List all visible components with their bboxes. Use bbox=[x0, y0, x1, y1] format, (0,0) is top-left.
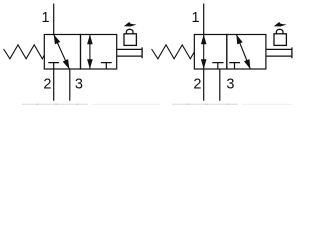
svg-text:1: 1 bbox=[42, 10, 50, 26]
valve V1 body right square bbox=[81, 35, 117, 70]
valve V1 port 3 wire (bottom right) bbox=[69, 69, 71, 101]
valve V1 lock flag indicator bbox=[124, 22, 137, 27]
valve V1 return spring bbox=[4, 45, 45, 59]
clipped caption remnants under valve V1 bbox=[22, 104, 160, 106]
valve V2 port 3 wire (bottom right) bbox=[219, 69, 221, 101]
valve V1 port 2 wire (bottom left) bbox=[53, 69, 55, 101]
valve V1 right position: vertical arrowhead down bbox=[87, 59, 93, 69]
valve V1 actuator bracket lower line bbox=[117, 55, 142, 57]
valve V2 body right square bbox=[227, 35, 266, 70]
valve V2 actuator bracket upper line bbox=[266, 48, 292, 50]
clipped caption remnants under valve V2 bbox=[172, 104, 292, 106]
valve V2 port 2 wire (bottom left) bbox=[203, 69, 205, 101]
valve V2 padlock body bbox=[274, 34, 286, 46]
valve V2 padlock shackle bbox=[276, 29, 283, 34]
valve V1 actuator bracket upper line bbox=[117, 48, 142, 50]
valve V1 left position: blocked port 2 symbol bbox=[48, 63, 59, 69]
valve V2 right position: diagonal flow path shaft bbox=[236, 35, 250, 70]
valve V1 right position: vertical arrowhead up bbox=[87, 35, 93, 45]
valve V1 padlock shackle bbox=[126, 29, 133, 34]
valve V2 left position: blocked port symbol bbox=[212, 63, 223, 69]
svg-text:3: 3 bbox=[75, 76, 83, 92]
svg-text:2: 2 bbox=[193, 76, 201, 92]
valve V1 left position: diagonal arrowhead at port 3 bbox=[63, 59, 70, 69]
svg-text:1: 1 bbox=[192, 10, 200, 26]
valve V2 right position: diagonal arrowhead top bbox=[236, 35, 242, 45]
valve V2 return spring bbox=[152, 45, 195, 59]
valve V2 left position: vertical arrowhead up bbox=[201, 35, 207, 45]
valve V2 lock flag indicator bbox=[274, 22, 287, 27]
valve V1 actuator bracket end bar bbox=[141, 47, 143, 58]
valve V2 body left square bbox=[194, 35, 226, 70]
valve V2 actuator bracket end bar bbox=[291, 47, 293, 58]
valve V2 actuator bracket lower line bbox=[266, 55, 292, 57]
svg-text:2: 2 bbox=[43, 76, 51, 92]
valve V1 left position: diagonal arrowhead at port 1 bbox=[54, 35, 61, 45]
valve V2 right position: blocked port symbol bbox=[229, 63, 240, 69]
valve V1 left position: diagonal flow path 1-3 shaft bbox=[54, 35, 70, 70]
valve V1 right position: blocked port symbol bbox=[101, 63, 112, 69]
valve V2 left position: vertical arrowhead down bbox=[201, 59, 207, 69]
valve V1 port 1 wire (top) bbox=[53, 4, 55, 35]
svg-text:3: 3 bbox=[226, 76, 234, 92]
valve V2 right position: diagonal arrowhead bottom bbox=[244, 59, 250, 69]
valve V1 right position: vertical flow path shaft bbox=[89, 35, 91, 70]
valve V1 padlock body bbox=[124, 34, 136, 46]
valve V2 left position (active): vertical flow path shaft bbox=[203, 35, 205, 70]
valve V1 body left square bbox=[44, 35, 80, 70]
valve V2 port 1 wire (top) bbox=[203, 4, 205, 35]
